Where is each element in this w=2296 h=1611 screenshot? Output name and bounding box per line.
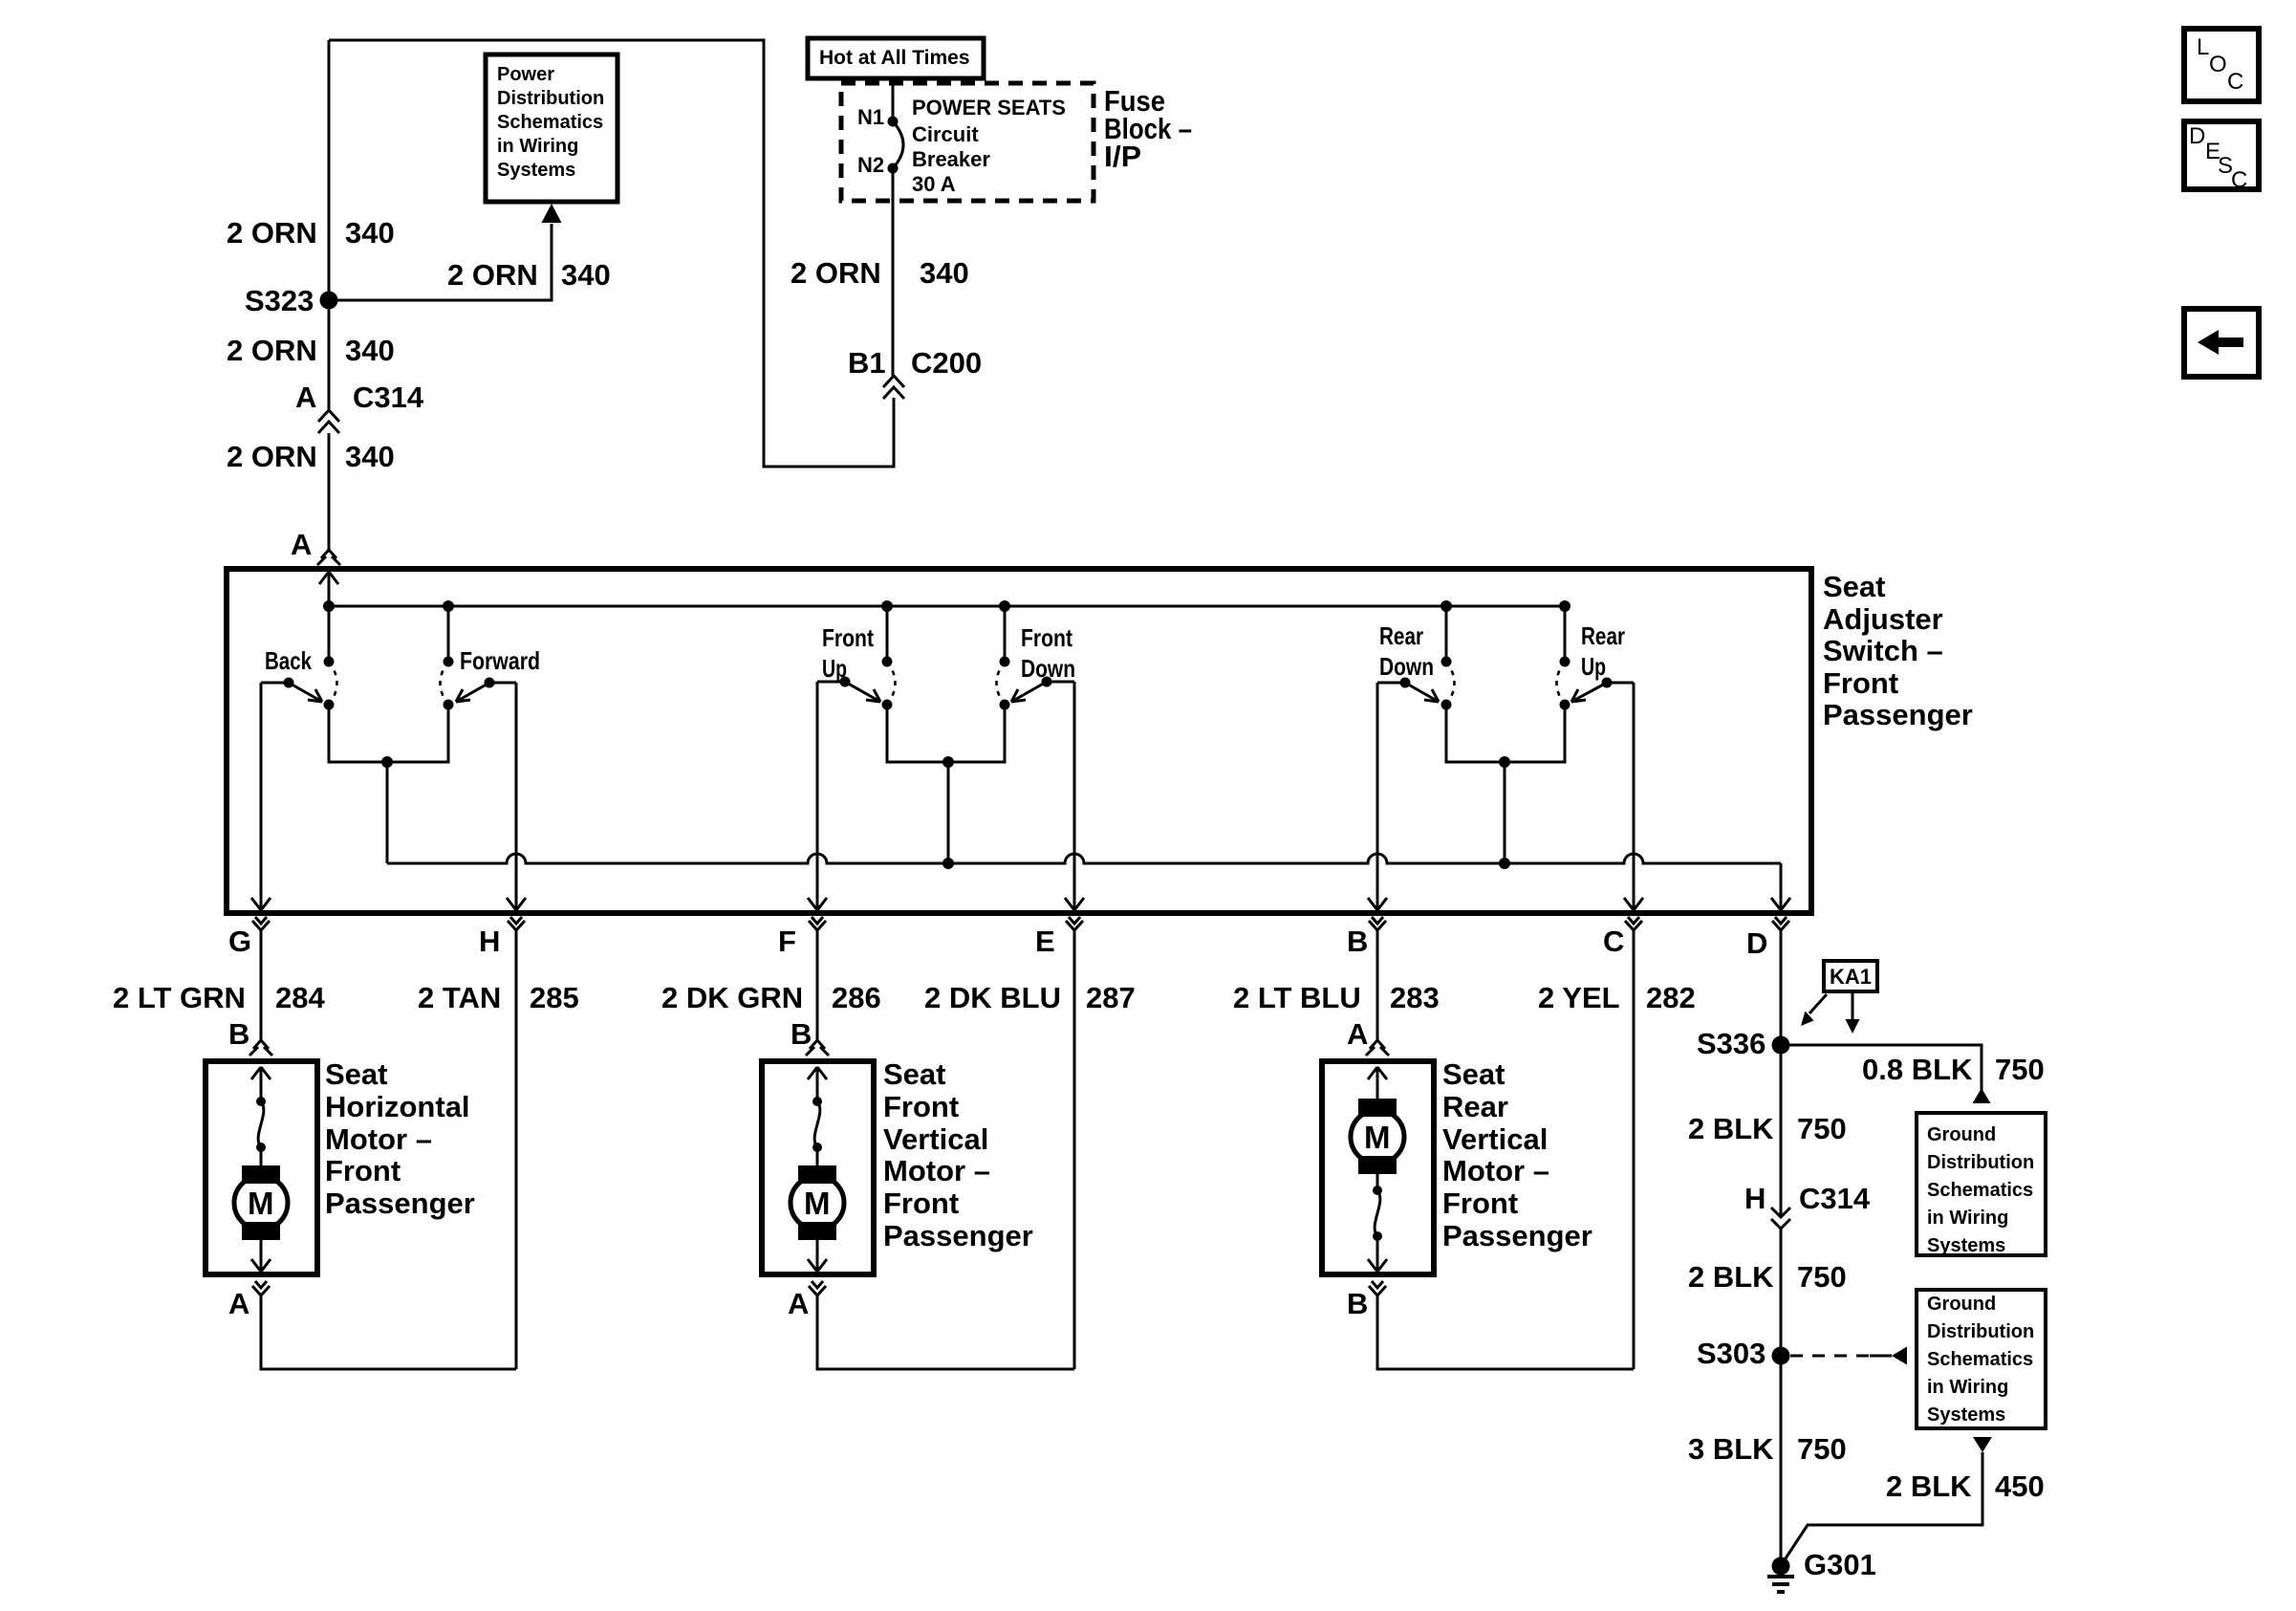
svg-text:in Wiring: in Wiring xyxy=(1927,1377,2008,1398)
svg-text:Passenger: Passenger xyxy=(883,1219,1033,1252)
svg-text:Front: Front xyxy=(1021,623,1072,652)
motor pin A (front vertical motor) xyxy=(809,1281,826,1302)
svg-text:C314: C314 xyxy=(353,381,424,414)
svg-text:O: O xyxy=(2209,52,2227,77)
svg-text:2 DK GRN: 2 DK GRN xyxy=(661,981,803,1014)
svg-text:Seat: Seat xyxy=(1823,570,1885,603)
connector pin G xyxy=(252,917,270,937)
arrow: off-page pointer (0.8 BLK 750) xyxy=(1973,1088,1991,1103)
svg-text:H: H xyxy=(479,925,500,958)
arrow: motor exit xyxy=(1368,1236,1387,1272)
wire: S323 branch to Power Distribution reference arrow xyxy=(329,224,552,300)
svg-text:Vertical: Vertical xyxy=(883,1122,988,1156)
svg-text:M: M xyxy=(804,1186,831,1221)
svg-text:Motor –: Motor – xyxy=(325,1122,432,1156)
node Front pair junction xyxy=(942,756,954,768)
svg-text:A: A xyxy=(788,1287,809,1320)
arrow: reference pointer to ground box 2 xyxy=(1892,1347,1907,1365)
svg-text:Ground: Ground xyxy=(1927,1294,1996,1315)
brush contacts xyxy=(812,1097,822,1106)
wire: horizontal motor return to H xyxy=(261,1302,516,1369)
brush contacts xyxy=(256,1097,266,1106)
wire: Rear pair contact link xyxy=(1446,705,1565,762)
svg-text:B1: B1 xyxy=(848,346,886,380)
svg-text:M: M xyxy=(1364,1120,1391,1155)
svg-text:Front: Front xyxy=(1823,666,1898,700)
node bus taps xyxy=(323,600,335,612)
wire: ground lead below C314 xyxy=(1780,1229,1783,1566)
svg-text:Back: Back xyxy=(265,646,312,675)
wire: S336 branch to ground reference xyxy=(1781,1045,1982,1090)
svg-text:A: A xyxy=(295,381,316,414)
svg-text:Up: Up xyxy=(1581,652,1606,681)
svg-text:287: 287 xyxy=(1086,981,1136,1014)
svg-text:Passenger: Passenger xyxy=(1823,698,1973,731)
svg-text:284: 284 xyxy=(275,981,325,1014)
motor box Seat Front Vertical Motor xyxy=(762,1061,874,1274)
svg-text:F: F xyxy=(778,925,796,958)
svg-text:2 BLK: 2 BLK xyxy=(1688,1112,1774,1145)
wire: breaker feed from dashed box top to N1 xyxy=(892,85,895,121)
wire: output D drop xyxy=(1771,863,1790,910)
icon back-arrow box xyxy=(2184,309,2259,377)
arrow: off-page pointer to Power Distribution box xyxy=(542,204,562,223)
svg-text:2 ORN: 2 ORN xyxy=(227,440,317,473)
svg-text:D: D xyxy=(1746,926,1767,960)
svg-text:Rear: Rear xyxy=(1379,621,1423,650)
armature and M xyxy=(1358,1099,1397,1117)
svg-text:2 TAN: 2 TAN xyxy=(418,981,501,1014)
svg-text:C: C xyxy=(1603,925,1624,958)
wire: common return bus with hops xyxy=(387,854,1781,863)
wire: S303 dashed reference link xyxy=(1790,1355,1870,1358)
node Back/Forward junction xyxy=(381,756,393,768)
pin N2 xyxy=(888,163,899,174)
svg-text:Front: Front xyxy=(325,1154,401,1187)
svg-text:Motor –: Motor – xyxy=(1442,1154,1549,1187)
svg-text:L: L xyxy=(2197,34,2209,60)
svg-text:285: 285 xyxy=(530,981,579,1014)
svg-text:Front: Front xyxy=(883,1186,959,1220)
connector pin H xyxy=(508,917,525,937)
svg-text:283: 283 xyxy=(1390,981,1440,1014)
svg-text:Vertical: Vertical xyxy=(1442,1122,1548,1156)
motor pin A (horizontal motor) xyxy=(252,1281,270,1302)
node S323 xyxy=(320,292,338,310)
svg-text:I/P: I/P xyxy=(1104,140,1141,173)
arrow: motor exit xyxy=(808,1240,827,1272)
svg-text:Seat: Seat xyxy=(883,1057,945,1091)
arrow: off-page pointer (2 BLK 450) xyxy=(1973,1437,1992,1452)
wire: output H drop xyxy=(507,683,526,910)
svg-text:Distribution: Distribution xyxy=(1927,1152,2034,1173)
motor box Seat Horizontal Motor xyxy=(206,1061,317,1274)
svg-text:G: G xyxy=(228,925,251,958)
wire: B lead xyxy=(1376,937,1379,1040)
svg-text:Rear: Rear xyxy=(1442,1090,1508,1123)
wire: output E drop xyxy=(1065,682,1084,910)
arrow: motor entry xyxy=(251,1067,271,1101)
svg-text:S323: S323 xyxy=(245,284,314,317)
wire: top loop horizontal and right side down to B1 junction xyxy=(329,40,894,467)
svg-text:286: 286 xyxy=(832,981,881,1014)
wire: Front junction drop xyxy=(947,762,950,863)
Power Distribution Schematics reference box xyxy=(486,54,617,202)
connector pin E xyxy=(1066,917,1083,937)
svg-text:Front: Front xyxy=(1442,1186,1518,1220)
svg-text:Forward: Forward xyxy=(460,646,540,675)
wire: output B drop xyxy=(1368,683,1387,910)
svg-text:340: 340 xyxy=(345,440,395,473)
svg-text:Front: Front xyxy=(883,1090,959,1123)
svg-text:N2: N2 xyxy=(857,153,884,177)
svg-text:0.8 BLK: 0.8 BLK xyxy=(1862,1053,1973,1086)
wire: Back/Forward contact link xyxy=(329,705,448,762)
svg-text:Distribution: Distribution xyxy=(1927,1321,2034,1342)
svg-text:2 YEL: 2 YEL xyxy=(1538,981,1620,1014)
wire: F lead xyxy=(816,937,819,1040)
wire: junction drop xyxy=(386,762,389,863)
wire: front vertical motor return to E xyxy=(817,1302,1074,1369)
icon LOC box xyxy=(2184,29,2259,101)
svg-text:750: 750 xyxy=(1797,1260,1847,1294)
wire: internal supply bus xyxy=(329,605,1565,608)
svg-text:Switch –: Switch – xyxy=(1823,634,1943,667)
wire: G lead xyxy=(260,937,263,1040)
svg-text:Seat: Seat xyxy=(325,1057,387,1091)
svg-text:C314: C314 xyxy=(1799,1182,1871,1215)
svg-text:450: 450 xyxy=(1995,1469,2045,1503)
svg-text:Ground: Ground xyxy=(1927,1124,1996,1145)
svg-text:Passenger: Passenger xyxy=(1442,1219,1592,1252)
wire: H lead xyxy=(515,937,518,1369)
arrow: motor entry xyxy=(808,1067,827,1101)
wire: orange feed below C314 xyxy=(328,433,331,550)
Hot at All Times box xyxy=(808,38,984,78)
connector pin D xyxy=(1772,917,1789,937)
svg-text:B: B xyxy=(791,1017,812,1051)
svg-text:POWER SEATS: POWER SEATS xyxy=(912,96,1066,120)
svg-text:Distribution: Distribution xyxy=(497,88,604,109)
Ground Distribution reference box 2 xyxy=(1917,1290,2046,1428)
Seat Adjuster Switch box xyxy=(227,569,1811,913)
Ground Distribution reference box 1 xyxy=(1917,1113,2046,1255)
svg-text:750: 750 xyxy=(1995,1053,2045,1086)
svg-text:Passenger: Passenger xyxy=(325,1186,475,1220)
svg-text:in Wiring: in Wiring xyxy=(1927,1208,2008,1229)
wire: E lead xyxy=(1073,937,1076,1369)
svg-text:A: A xyxy=(291,528,312,561)
node Front drop tap xyxy=(942,858,954,869)
svg-text:3 BLK: 3 BLK xyxy=(1688,1432,1774,1466)
KA1 callout box xyxy=(1824,961,1877,991)
arrow: motor exit xyxy=(251,1240,271,1272)
svg-text:Motor –: Motor – xyxy=(883,1154,990,1187)
svg-text:2 LT BLU: 2 LT BLU xyxy=(1233,981,1361,1014)
node Rear drop tap xyxy=(1499,858,1510,869)
svg-text:Systems: Systems xyxy=(1927,1235,2005,1256)
svg-text:Systems: Systems xyxy=(497,160,575,181)
wire: D ground lead xyxy=(1780,937,1783,1216)
icon DESC box xyxy=(2184,121,2259,189)
wire: C lead xyxy=(1633,937,1635,1369)
wire: Front pair contact link xyxy=(887,705,1005,762)
svg-text:282: 282 xyxy=(1646,981,1696,1014)
svg-text:N1: N1 xyxy=(857,105,884,129)
wire: breaker output down to B1 xyxy=(892,168,895,376)
svg-text:B: B xyxy=(228,1017,249,1051)
svg-text:Systems: Systems xyxy=(1927,1404,2005,1426)
arrow: feed entry into switch box xyxy=(319,572,338,662)
svg-text:H: H xyxy=(1744,1182,1765,1215)
svg-text:2 BLK: 2 BLK xyxy=(1886,1469,1972,1503)
svg-text:Front: Front xyxy=(822,623,874,652)
svg-text:Hot at All Times: Hot at All Times xyxy=(819,47,970,69)
svg-text:Schematics: Schematics xyxy=(1927,1180,2033,1201)
wire: output F drop xyxy=(808,682,827,910)
svg-text:Down: Down xyxy=(1379,652,1434,681)
svg-text:340: 340 xyxy=(920,256,969,290)
pin N1 xyxy=(888,117,899,127)
svg-text:M: M xyxy=(248,1186,274,1221)
svg-text:340: 340 xyxy=(345,334,395,367)
svg-text:Schematics: Schematics xyxy=(1927,1349,2033,1370)
svg-text:KA1: KA1 xyxy=(1830,965,1872,989)
svg-text:2 ORN: 2 ORN xyxy=(791,256,881,290)
wire: output G drop xyxy=(251,683,271,910)
svg-text:2 ORN: 2 ORN xyxy=(227,334,317,367)
motor pin B (rear vertical motor) xyxy=(1369,1281,1386,1302)
arrow: KA1 pointer diagonal xyxy=(1809,994,1827,1013)
svg-text:S336: S336 xyxy=(1697,1027,1765,1060)
svg-text:Seat: Seat xyxy=(1442,1057,1505,1091)
brush contacts xyxy=(1373,1186,1382,1195)
node S303 xyxy=(1772,1347,1790,1365)
node S336 xyxy=(1772,1036,1790,1055)
svg-text:Circuit: Circuit xyxy=(912,122,979,146)
armature and M xyxy=(260,1147,263,1165)
wire: 450 ground branch xyxy=(1784,1452,1982,1561)
connector A C314 in-line xyxy=(318,410,339,433)
svg-text:2 ORN: 2 ORN xyxy=(227,216,317,250)
svg-text:340: 340 xyxy=(345,216,395,250)
arrow: motor entry xyxy=(1368,1067,1387,1099)
svg-text:Rear: Rear xyxy=(1581,621,1625,650)
svg-text:2 LT GRN: 2 LT GRN xyxy=(113,981,246,1014)
ground G301 xyxy=(1772,1557,1790,1576)
svg-text:C: C xyxy=(2227,69,2243,95)
svg-text:Power: Power xyxy=(497,64,554,85)
svg-text:B: B xyxy=(1347,1287,1368,1320)
svg-text:S303: S303 xyxy=(1697,1337,1765,1370)
svg-text:750: 750 xyxy=(1797,1432,1847,1466)
wire: output C drop xyxy=(1624,683,1643,910)
svg-text:G301: G301 xyxy=(1804,1548,1876,1581)
connector pin C xyxy=(1625,917,1642,937)
fuse block dashed box xyxy=(841,83,1094,201)
svg-text:Schematics: Schematics xyxy=(497,112,603,133)
connector pin F xyxy=(809,917,826,937)
armature and M xyxy=(816,1147,819,1165)
connector pin B xyxy=(1369,917,1386,937)
svg-text:750: 750 xyxy=(1797,1112,1847,1145)
svg-text:Horizontal: Horizontal xyxy=(325,1090,470,1123)
svg-text:C: C xyxy=(2231,167,2247,193)
svg-text:2 BLK: 2 BLK xyxy=(1688,1260,1774,1294)
circuit breaker arc N1 to N2 xyxy=(893,121,903,168)
wire: main orange feed vertical (top segment to C314) xyxy=(328,40,331,410)
wire: Rear junction drop xyxy=(1504,762,1506,863)
wire: rear vertical motor return to C xyxy=(1377,1302,1634,1369)
arrow: KA1 pointer vertical xyxy=(1852,991,1854,1019)
motor box Seat Rear Vertical Motor xyxy=(1322,1061,1434,1274)
svg-text:30 A: 30 A xyxy=(912,172,956,196)
svg-text:A: A xyxy=(228,1287,249,1320)
svg-text:E: E xyxy=(1035,925,1055,958)
node Rear pair junction xyxy=(1499,756,1510,768)
svg-text:in Wiring: in Wiring xyxy=(497,136,578,157)
svg-text:D: D xyxy=(2189,123,2205,149)
svg-text:Adjuster: Adjuster xyxy=(1823,602,1943,636)
svg-text:B: B xyxy=(1347,925,1368,958)
svg-text:Breaker: Breaker xyxy=(912,147,990,171)
svg-text:340: 340 xyxy=(561,258,611,292)
svg-text:2 DK BLU: 2 DK BLU xyxy=(924,981,1061,1014)
svg-text:2 ORN: 2 ORN xyxy=(447,258,538,292)
svg-text:C200: C200 xyxy=(911,346,982,380)
svg-text:A: A xyxy=(1347,1017,1368,1051)
wire: switch feed stubs xyxy=(448,606,1565,662)
